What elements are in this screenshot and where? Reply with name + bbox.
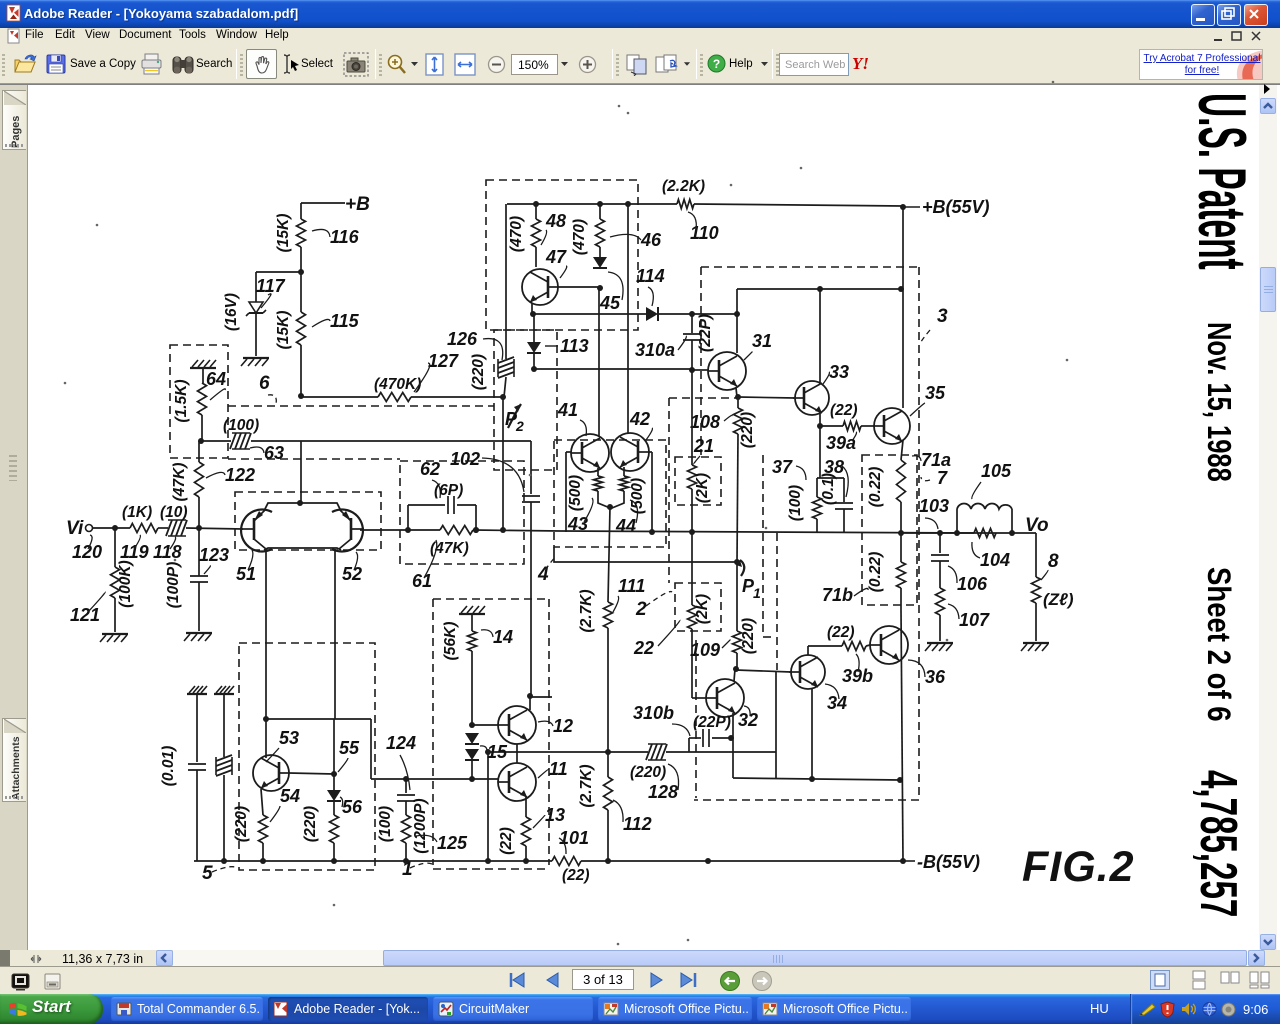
- transistor Q12: [498, 706, 536, 744]
- svg-text:46: 46: [640, 230, 662, 250]
- node cap62 left: [405, 527, 411, 533]
- dashed partition x777: [776, 533, 778, 670]
- horizontal scrollbar row: [0, 950, 1280, 967]
- resistor R125 (100): [402, 815, 411, 843]
- svg-text:(220): (220): [302, 806, 319, 842]
- elevated ground above R64: [190, 367, 216, 369]
- svg-text:71a: 71a: [921, 450, 951, 470]
- node x533 y314: [530, 311, 536, 317]
- wire top rail right part: [694, 204, 903, 206]
- svg-text:Nov. 15, 1988: Nov. 15, 1988: [1200, 322, 1237, 482]
- main right vertical upper: [902, 206, 904, 408]
- try acrobat box: [1139, 49, 1263, 80]
- node R121 tap: [112, 525, 118, 531]
- svg-text:34: 34: [827, 693, 847, 713]
- wire gnd to R14: [471, 614, 473, 631]
- capacitor C102: [530, 441, 532, 494]
- transistor Q53: [253, 755, 289, 791]
- elevated ground right: [214, 693, 234, 695]
- elevated ground left: [187, 693, 207, 695]
- svg-text:41: 41: [557, 400, 578, 420]
- resistor R43 (500): [597, 468, 599, 476]
- wire 12 base lead: [472, 724, 498, 726]
- svg-text:63: 63: [264, 443, 284, 463]
- wire 53 base to 56 column: [289, 773, 334, 774]
- svg-text:(2.2K): (2.2K): [662, 178, 705, 195]
- wire y441 to cap102 column: [251, 440, 531, 442]
- transistor Q32: [706, 679, 744, 717]
- svg-text:21: 21: [693, 436, 714, 456]
- svg-text:U.S. Patent: U.S. Patent: [1184, 93, 1259, 270]
- resistor R109 (220): [736, 562, 738, 631]
- node x692 y369: [689, 367, 695, 373]
- svg-text:Vi: Vi: [66, 518, 84, 539]
- resistor R44 (500): [623, 467, 625, 476]
- wire zener to ground: [255, 313, 257, 356]
- svg-text:(22P): (22P): [693, 714, 731, 731]
- wire C118 to envelope: [186, 528, 243, 529]
- node rail x940: [937, 530, 943, 536]
- svg-text:(500): (500): [629, 478, 646, 514]
- dashed edge y398: [669, 397, 736, 399]
- node y314 x692: [689, 311, 695, 317]
- dashed box around 51/52: [235, 492, 381, 550]
- wire 32 emitter down: [732, 713, 734, 778]
- svg-text:52: 52: [342, 564, 362, 584]
- svg-text:(0.01): (0.01): [160, 746, 177, 787]
- ground below C123: [186, 632, 212, 634]
- wire y441 left: [201, 440, 231, 442]
- svg-text:35: 35: [925, 383, 946, 403]
- wire 102col stub right: [530, 696, 552, 698]
- wire y289 line: [737, 288, 901, 290]
- svg-text:(220): (220): [233, 806, 250, 842]
- svg-text:6: 6: [259, 373, 270, 394]
- node x820 y289: [817, 286, 823, 292]
- svg-text:103: 103: [919, 496, 949, 516]
- node y780 x900: [897, 777, 903, 783]
- node rail x903: [900, 858, 906, 864]
- wire y752: [488, 751, 648, 753]
- wire vertical cap126 column: [505, 332, 507, 359]
- start button: [0, 994, 103, 1024]
- menu bar: [0, 28, 1280, 46]
- capacitor C310a (22P): [691, 314, 693, 333]
- svg-text:(2.7K): (2.7K): [578, 764, 595, 807]
- svg-text:115: 115: [330, 311, 360, 331]
- node 64/63: [198, 438, 204, 444]
- svg-text:(10): (10): [160, 504, 188, 521]
- dashed box around R22: [675, 583, 721, 631]
- dashed box 5: [239, 643, 375, 870]
- svg-text:(500): (500): [567, 475, 584, 511]
- svg-text:(6P): (6P): [434, 482, 463, 499]
- wire R39b to 36 base: [866, 645, 870, 646]
- svg-text:5: 5: [202, 863, 213, 884]
- wire 33 base line: [738, 397, 795, 398]
- wire 31 collector: [736, 289, 738, 353]
- svg-text:55: 55: [339, 738, 360, 758]
- node x534 y369: [531, 366, 537, 372]
- svg-text:(1K): (1K): [122, 504, 152, 521]
- main right vertical mid: [901, 440, 903, 460]
- wire 33 emitter: [819, 413, 821, 426]
- zoom +: [386, 53, 410, 76]
- resistor R46 (470): [599, 204, 601, 219]
- transistor Q31: [708, 352, 746, 390]
- wire envelope right to R61: [360, 529, 440, 531]
- svg-text:(470): (470): [508, 216, 525, 252]
- node x738 y397: [735, 394, 741, 400]
- svg-text:(0.1): (0.1): [820, 473, 837, 505]
- capacitor C106: [939, 533, 941, 553]
- wire 37/38 feed: [819, 426, 821, 478]
- svg-text:Vo: Vo: [1025, 515, 1049, 536]
- help: [707, 54, 726, 73]
- node 53 base x334: [331, 771, 337, 777]
- svg-text:(Zℓ): (Zℓ): [1043, 590, 1074, 609]
- dashed partition x763: [762, 455, 764, 637]
- wire R116 to node: [300, 247, 302, 272]
- capacitor C126 hatched: [498, 357, 514, 363]
- svg-text:7: 7: [937, 468, 948, 488]
- svg-text:33: 33: [829, 362, 849, 382]
- svg-text:36: 36: [925, 667, 946, 687]
- capacitor C62 (6P) loop: [407, 505, 409, 530]
- dashed link box6 to P2 box: [228, 405, 494, 407]
- dashed box 3 outer: [701, 266, 919, 268]
- svg-text:(22): (22): [562, 867, 590, 884]
- svg-text:32: 32: [738, 710, 758, 730]
- wire main left vertical top: [300, 203, 302, 219]
- node y752 x608: [605, 749, 611, 755]
- svg-text:47: 47: [545, 247, 567, 267]
- dashed partition y637: [763, 636, 776, 638]
- node junction 116/115/117: [298, 269, 304, 275]
- resistor R116: [297, 219, 306, 247]
- node P2 junction: [500, 394, 506, 400]
- ground below R8: [1023, 642, 1049, 644]
- select tool: [283, 54, 301, 74]
- node rail x406: [403, 858, 409, 864]
- svg-text:(220): (220): [740, 618, 757, 654]
- svg-text:127: 127: [428, 351, 459, 371]
- svg-text:113: 113: [560, 336, 589, 356]
- node rail x608: [605, 858, 611, 864]
- svg-text:(100): (100): [377, 806, 394, 842]
- dashed edge x669: [668, 398, 670, 583]
- diode D56: [333, 719, 335, 790]
- svg-text:-B(55V): -B(55V): [917, 852, 980, 872]
- capacitor C128 hatched: [646, 744, 652, 760]
- node cap62 right: [473, 527, 479, 533]
- wire cap126 to node: [504, 377, 506, 397]
- dashed long line y459: [228, 458, 400, 460]
- svg-text:120: 120: [72, 542, 102, 562]
- camera: [343, 52, 369, 77]
- svg-text:110: 110: [690, 223, 719, 243]
- svg-text:45: 45: [599, 293, 621, 313]
- fit width: [453, 52, 477, 77]
- status bar: [0, 967, 1280, 994]
- resistor R104: [974, 529, 996, 538]
- wire y562 line: [554, 547, 737, 562]
- svg-text:102: 102: [450, 449, 480, 469]
- open folder icon: [13, 52, 39, 76]
- wire gnd2 to cap2: [223, 694, 225, 757]
- svg-text:4,785,257: 4,785,257: [1189, 770, 1246, 917]
- svg-text:22: 22: [633, 638, 654, 658]
- wire R115 to node 6: [300, 345, 302, 396]
- svg-text:13: 13: [545, 805, 565, 825]
- node 102 column bottom: [527, 693, 533, 699]
- node rail x1012: [1009, 530, 1015, 536]
- minus circle: [487, 55, 506, 74]
- transistor Q33: [795, 381, 829, 415]
- resistor R115: [297, 312, 306, 345]
- node rail x628: [625, 201, 631, 207]
- wire y426 to R39a: [820, 425, 843, 427]
- node rail x263: [260, 858, 266, 864]
- node y719 x266: [263, 716, 269, 722]
- svg-text:(470K): (470K): [374, 376, 421, 393]
- svg-text:2: 2: [635, 599, 647, 620]
- diode D113: [533, 314, 535, 342]
- node x472 base 12: [469, 722, 475, 728]
- wire 53 collector: [265, 719, 267, 758]
- resistor R127 (470K): [378, 393, 411, 402]
- pages icons: [625, 53, 650, 76]
- node R122/rail: [196, 525, 202, 531]
- wire R61 to rail right: [473, 530, 560, 531]
- svg-text:12: 12: [553, 716, 573, 736]
- wire y779 emitters: [733, 778, 900, 780]
- resistor R119 (1K): [130, 524, 158, 533]
- svg-text:104: 104: [980, 550, 1010, 570]
- svg-text:(0.22): (0.22): [867, 467, 884, 508]
- resistor R107: [936, 588, 945, 615]
- svg-text:310a: 310a: [635, 340, 675, 360]
- wire R64 to node: [201, 415, 203, 441]
- resistor R39a (22): [843, 422, 861, 431]
- resistor R39b (22): [842, 642, 866, 651]
- svg-text:+B: +B: [345, 194, 370, 215]
- svg-text:(2K): (2K): [694, 473, 711, 503]
- dashed box 6: [170, 345, 228, 458]
- node x901 y289: [898, 286, 904, 292]
- capacitor C118 hatched: [166, 520, 172, 536]
- diode D114: [646, 307, 658, 321]
- P1 arrow: [740, 560, 744, 576]
- svg-text:124: 124: [386, 733, 416, 753]
- svg-text:3: 3: [937, 306, 948, 327]
- node rail x536: [533, 201, 539, 207]
- node rail x476: [473, 527, 479, 533]
- node y752 x488: [485, 749, 491, 755]
- node rail x224: [221, 858, 227, 864]
- svg-text:121: 121: [70, 605, 100, 625]
- svg-text:(0.22): (0.22): [867, 552, 884, 593]
- wire 34 collector to 39b: [807, 646, 809, 655]
- ground below R107: [927, 642, 953, 644]
- node rail x566: [565, 531, 567, 533]
- svg-text:(56K): (56K): [442, 622, 459, 661]
- elevated ground above R14: [459, 613, 485, 615]
- resistor R64 (1.5K): [198, 383, 207, 415]
- dashed box around R21: [675, 457, 721, 505]
- svg-text:(100K): (100K): [117, 560, 134, 607]
- svg-text:39a: 39a: [826, 433, 856, 453]
- svg-text:106: 106: [957, 574, 988, 594]
- svg-text:71b: 71b: [822, 585, 853, 605]
- wire y314 line: [533, 313, 646, 315]
- node rail x488: [485, 858, 491, 864]
- wire cap2 to rail: [223, 775, 225, 861]
- node envelope top: [297, 500, 303, 506]
- wire cap to rail: [196, 770, 198, 861]
- top rail +B55: [507, 203, 677, 205]
- node x820 y426: [817, 423, 823, 429]
- inductor L105: [956, 509, 958, 533]
- wire 32 collector: [734, 669, 735, 681]
- svg-text:126: 126: [447, 329, 478, 349]
- svg-text:111: 111: [618, 576, 645, 596]
- svg-text:(22): (22): [498, 827, 515, 855]
- wire 12 collector: [529, 696, 531, 710]
- node rail x334b: [331, 858, 337, 864]
- node x737 y669: [733, 666, 739, 672]
- overflow chevron: [1262, 83, 1272, 95]
- svg-text:31: 31: [752, 331, 772, 351]
- node rail x901: [898, 530, 904, 536]
- svg-text:128: 128: [648, 782, 678, 802]
- fit page: [424, 52, 445, 77]
- resistor R71a-2 (0.22): [900, 533, 902, 562]
- wire emitter tie x776: [775, 672, 777, 778]
- svg-text:64: 64: [206, 369, 226, 389]
- resistor R56b (220): [330, 815, 339, 843]
- svg-text:108: 108: [690, 412, 720, 432]
- resistor R108 (220): [737, 397, 739, 408]
- node +B55V: [900, 204, 906, 210]
- transistor 52 internals: [350, 518, 353, 540]
- node 43/44 join: [607, 504, 613, 510]
- svg-text:(470): (470): [571, 219, 588, 255]
- svg-text:42: 42: [629, 409, 650, 429]
- capacitor C124 (1200P): [405, 779, 407, 793]
- resistor R112 (2.7K): [607, 752, 609, 777]
- svg-text:(2K): (2K): [694, 594, 711, 624]
- svg-text:119: 119: [120, 542, 149, 562]
- node x600 y288: [597, 285, 603, 291]
- node P2 column on rail: [500, 527, 506, 533]
- svg-text:(22P): (22P): [697, 314, 714, 352]
- wire 41 base column: [566, 451, 571, 453]
- resistor R61 (47K): [440, 526, 473, 535]
- wire y719: [266, 718, 371, 720]
- capacitor C0.01 plates: [188, 763, 206, 765]
- svg-text:54: 54: [280, 786, 300, 806]
- node y779 x406: [403, 776, 409, 782]
- printer: [140, 53, 163, 76]
- dual transistor envelope 51/52: [241, 510, 272, 552]
- wire y369 to 31 base: [534, 368, 692, 370]
- wire R119 to C118: [158, 527, 168, 529]
- search web box: [779, 53, 849, 76]
- wire +B stub: [301, 202, 345, 204]
- svg-text:51: 51: [236, 564, 256, 584]
- wire y779 left line: [371, 778, 498, 780]
- svg-text:56: 56: [342, 797, 363, 817]
- svg-text:105: 105: [981, 461, 1012, 481]
- svg-text:48: 48: [545, 211, 566, 231]
- svg-text:310b: 310b: [633, 703, 674, 723]
- capacitor C123 (100P): [198, 528, 200, 576]
- wire node288 down to 41 collector: [598, 288, 600, 437]
- svg-text:(220): (220): [470, 354, 487, 390]
- resistor R48 (470): [535, 204, 537, 219]
- svg-text:(22): (22): [830, 402, 858, 419]
- node P1: [734, 559, 740, 565]
- svg-text:107: 107: [959, 610, 990, 630]
- wire branch to zener: [256, 271, 301, 273]
- resistor R54 (220): [259, 815, 268, 843]
- svg-text:(1200P): (1200P): [412, 798, 429, 853]
- svg-text:125: 125: [437, 833, 468, 853]
- svg-text:(100): (100): [223, 417, 259, 434]
- mdi child buttons: [1212, 30, 1264, 43]
- wire 11 emitter: [525, 797, 527, 817]
- wire emitter 51 down: [265, 549, 267, 719]
- svg-text:(47K): (47K): [171, 463, 188, 502]
- transistor Q47: [522, 269, 558, 305]
- transistor Q36: [870, 626, 908, 664]
- svg-text:Sheet 2 of 6: Sheet 2 of 6: [1200, 567, 1236, 722]
- svg-text:62: 62: [420, 459, 440, 479]
- Y!: [852, 54, 878, 74]
- diode D45: [593, 257, 607, 268]
- scan specks: [618, 105, 621, 108]
- wire diodes to y779: [471, 760, 473, 779]
- wire 32 base lead: [692, 697, 707, 699]
- wire 47 emitter to y314: [531, 303, 533, 314]
- zener diode 117 (16V): [249, 302, 263, 313]
- resistor R121 (100K): [114, 528, 116, 567]
- taskbar: [0, 994, 1280, 1024]
- resistor R110 (2.2K): [677, 200, 694, 209]
- svg-text:2: 2: [515, 418, 524, 434]
- wire cap126 top column: [505, 204, 507, 332]
- resistor R37 (100): [816, 478, 818, 497]
- toolbar: [0, 46, 1280, 84]
- node rail x526: [523, 858, 529, 864]
- diode D15 upper: [465, 733, 479, 744]
- svg-text:(1.5K): (1.5K): [173, 379, 190, 422]
- svg-text:14: 14: [493, 627, 513, 647]
- svg-text:109: 109: [690, 640, 720, 660]
- svg-text:101: 101: [559, 828, 589, 848]
- svg-text:(22): (22): [827, 624, 855, 641]
- wire envelope collector tap: [300, 441, 302, 503]
- dashed box 4: [554, 440, 666, 547]
- wire Vi to R119: [93, 527, 130, 529]
- floppy: [45, 53, 67, 75]
- wire 34 emitter down: [811, 688, 813, 779]
- svg-text:118: 118: [153, 542, 182, 562]
- svg-text:+B(55V): +B(55V): [922, 197, 990, 217]
- transistor Q35: [874, 408, 910, 444]
- wire x628 down to 42 collector: [627, 204, 629, 434]
